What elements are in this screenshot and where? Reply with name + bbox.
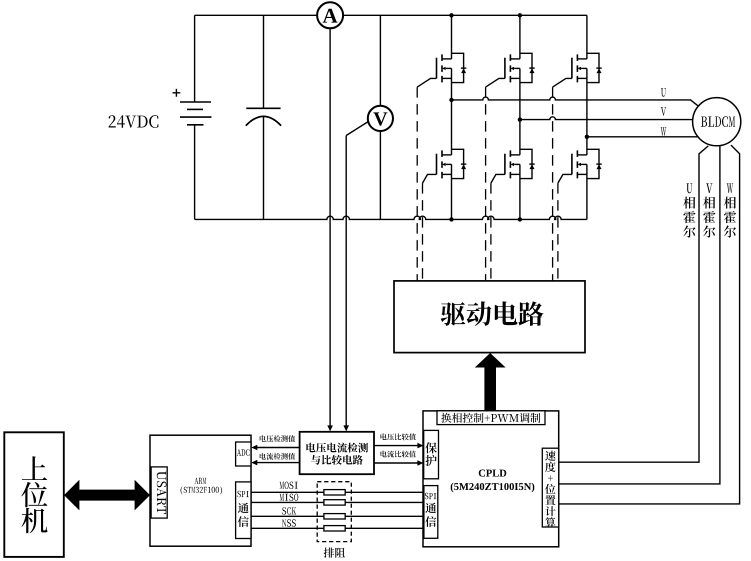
wire gate drive dashed (lower Q4) [490, 183, 492, 281]
arrowhead into 保护 (voltage compare) [417, 443, 423, 449]
motor BLDCM [693, 98, 741, 146]
label MISO [280, 494, 299, 501]
block 换相控制+PWM调制 (commutation control + PWM) [437, 411, 545, 425]
battery 24VDC [173, 15, 212, 219]
label 24VDC [109, 115, 159, 128]
label U相霍尔 (hall U) [683, 183, 695, 237]
block 驱动电路 (gate drive circuit) [394, 281, 585, 353]
wire leg2 top (drain feed) [519, 15, 521, 59]
label 电流比较值 [381, 451, 417, 458]
wire SPI SCK [251, 515, 424, 517]
voltmeter V [368, 106, 393, 131]
wire leg1 top (drain feed) [451, 15, 453, 59]
label W (phase) [661, 127, 667, 135]
wire gate drive dashed (lower Q2) [422, 183, 424, 281]
block 保护 (protection) [424, 430, 439, 478]
block 电压电流检测与比较电路 (V/I detection & compare) [300, 432, 374, 474]
transistor Q6 (lower MOSFET with body diode) [558, 149, 602, 183]
label 排阻 [324, 548, 346, 558]
label 电压比较值 [381, 433, 417, 440]
arrowhead into detection circuit (voltage) [343, 425, 349, 431]
wire 电压比较值 to 保护 [374, 445, 419, 447]
junction dot phase U / leg1 [449, 98, 453, 102]
ammeter A [317, 2, 343, 28]
wire voltage-sense line down to detection circuit [345, 136, 347, 426]
wire gate drive dashed (upper Q5) [552, 87, 554, 281]
junction dot top rail / leg2 [518, 13, 522, 17]
block SPI通信 (ARM SPI) [236, 482, 251, 539]
resistor (array element 2) [324, 500, 345, 505]
wire SPI MOSI [251, 491, 424, 493]
label U (phase) [661, 88, 666, 97]
block 上位机 (host computer) [4, 432, 64, 557]
block ADC [236, 442, 251, 466]
wire 电流检测值 to ADC [256, 462, 300, 464]
wire bottom rail (negative bus) with crossover hops [195, 216, 587, 219]
arrowhead into 保护 (current compare) [417, 460, 423, 466]
wire voltmeter to bottom rail [379, 131, 381, 219]
label SCK [282, 507, 296, 514]
wire gate drive dashed (upper Q3) [485, 87, 487, 281]
wire hall W sensor to CPLD [559, 145, 740, 504]
wire leg1 midpoint (phase node column) [451, 78, 453, 154]
block CPLD [423, 411, 559, 547]
block ARM (STM32F100) [150, 435, 251, 546]
wire ammeter current-sense line down to detection circuit [329, 28, 331, 426]
wire leg1 bottom (source to negative bus) [451, 174, 453, 219]
wire phase V from leg2 to motor (hops over gate dash) [520, 117, 693, 120]
label V (phase) [661, 107, 667, 115]
wire phase U from leg1 to motor (hops over gate dashes) [452, 97, 699, 106]
wire leg3 bottom (source to negative bus) [586, 174, 588, 219]
wire SPI NSS [251, 527, 424, 529]
transistor Q5 (upper MOSFET with body diode) [553, 53, 602, 87]
label 电压检测值 [260, 435, 296, 442]
wire SPI MISO [251, 501, 424, 503]
capacitor (bus filter) [246, 15, 281, 219]
block SPI通信 (CPLD SPI) [424, 486, 438, 539]
wire gate drive dashed (upper Q1) [416, 87, 418, 281]
wire leg3 midpoint (phase node column) [586, 78, 588, 154]
transistor Q3 (upper MOSFET with body diode) [486, 53, 535, 87]
label NSS [282, 519, 296, 526]
transistor Q4 (lower MOSFET with body diode) [491, 149, 535, 183]
wire phase W from leg3 to motor [587, 136, 698, 138]
resistor (array element 3) [324, 514, 345, 519]
wire gate drive dashed (lower Q6) [557, 183, 559, 281]
wire 电压检测值 to ADC [256, 447, 300, 449]
arrowhead into detection circuit (current) [327, 425, 333, 431]
voltmeter branch wire from top rail [379, 15, 381, 106]
wire hall U sensor to CPLD [559, 146, 709, 462]
arrowhead into ADC (current) [251, 460, 257, 466]
arrowhead into ADC (voltage) [251, 445, 257, 451]
junction dot phase W / leg3 [585, 135, 589, 139]
wire hall V sensor to CPLD [559, 146, 720, 484]
junction dot top rail / leg1 [449, 13, 453, 17]
label W相霍尔 (hall W) [724, 183, 736, 237]
wire 电流比较值 to 保护 [374, 462, 419, 464]
wire leg3 top (drain feed) [586, 15, 588, 59]
resistor (array element 4) [324, 526, 345, 531]
junction dot phase V / leg2 [518, 117, 522, 121]
dashed outline 排阻 (resistor network) [317, 482, 351, 542]
resistor (array element 1) [324, 490, 345, 495]
label V相霍尔 (hall V) [703, 183, 715, 237]
wire voltage-sense diagonal from voltmeter [346, 122, 368, 136]
block 速度+位置计算 (speed+position calc) [542, 448, 558, 527]
block USART [151, 467, 167, 518]
junction dot bottom rail / leg1 [449, 217, 453, 221]
junction dot bottom rail / leg2 [518, 217, 522, 221]
label MOSI [280, 482, 298, 489]
wire leg2 midpoint (phase node column) [519, 78, 521, 154]
transistor Q1 (upper MOSFET with body diode) [417, 53, 466, 87]
thick arrow CPLD to drive circuit [475, 353, 506, 412]
label 电流检测值 [260, 453, 296, 460]
transistor Q2 (lower MOSFET with body diode) [423, 149, 467, 183]
thick double arrow 上位机-USART [64, 480, 150, 511]
wire top rail (battery + to bridge, through ammeter) [195, 14, 587, 16]
wire leg2 bottom (source to negative bus) [519, 174, 521, 219]
